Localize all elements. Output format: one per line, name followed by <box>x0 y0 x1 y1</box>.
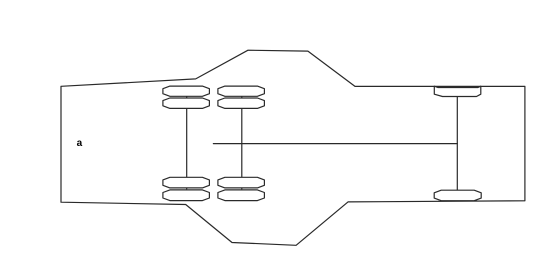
wheel W4a: axle A2 lower outer tire <box>218 177 265 188</box>
wheel W4b: axle A2 lower inner tire <box>218 190 265 201</box>
wheel W2b: axle A2 upper inner tire <box>218 98 265 108</box>
wheel W3b: axle A1 lower inner tire <box>163 190 210 201</box>
wheel W1b: axle A1 upper inner tire <box>163 98 210 108</box>
wheel W6: rear axle A3 lower tire <box>434 190 481 201</box>
front axle A1 (left vertical axle line) <box>186 96 188 189</box>
wheel W1a: axle A1 upper outer tire <box>163 86 210 96</box>
rear axle A3 (vertical axle line) <box>456 88 458 196</box>
wheel W2a: axle A2 upper outer tire <box>218 86 265 96</box>
second axle A2 (vertical axle line) <box>241 96 243 189</box>
chassis body outline <box>61 50 525 245</box>
wheel W3a: axle A1 lower outer tire <box>163 177 210 188</box>
wheel W5: rear axle A3 upper tire <box>434 86 481 96</box>
drive shaft (horizontal line) <box>213 143 457 145</box>
svg-text:a: a <box>77 138 83 149</box>
